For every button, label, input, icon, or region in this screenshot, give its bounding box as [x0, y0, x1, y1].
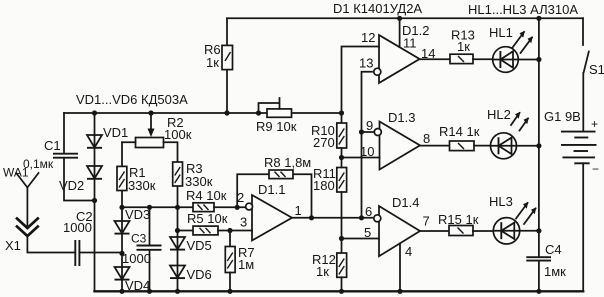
battery G1	[544, 109, 599, 291]
wire detector bus y113 left part	[64, 112, 267, 114]
node divider top on bus	[339, 110, 344, 115]
svg-text:11: 11	[403, 36, 417, 51]
svg-text:1м: 1м	[238, 257, 254, 272]
svg-text:1: 1	[295, 203, 302, 218]
resistor R8 feedback	[237, 155, 311, 218]
svg-text:WA1: WA1	[3, 166, 29, 180]
capacitor C1	[23, 113, 95, 201]
node R6 bottom	[224, 110, 229, 115]
svg-text:HL3: HL3	[489, 194, 513, 209]
node VD5 top R5 tap	[175, 228, 180, 233]
diode VD5	[170, 237, 212, 253]
op-amp D1.4	[365, 195, 430, 259]
node R7 bottom on ground bus	[227, 289, 232, 294]
diode VD3	[115, 207, 151, 234]
wire pin9 stub	[362, 131, 373, 133]
wire D1.2 pin11 supply	[399, 18, 401, 47]
label header HL	[468, 2, 578, 17]
svg-text:13: 13	[359, 56, 373, 71]
svg-text:HL1...HL3 АЛ310А: HL1...HL3 АЛ310А	[468, 2, 578, 17]
resistor R5	[178, 211, 253, 235]
potentiometer R2	[122, 113, 192, 162]
node R1 bottom on y207 bus	[119, 205, 124, 210]
svg-text:X1: X1	[5, 238, 21, 253]
wire top +V rail	[227, 17, 583, 19]
resistor R9 (trimmer)	[256, 98, 297, 134]
svg-text:HL1: HL1	[489, 25, 513, 40]
wire y207 node bus	[122, 206, 193, 208]
svg-text:1мк: 1мк	[544, 264, 566, 279]
svg-text:HL2: HL2	[487, 107, 511, 122]
resistor R14	[420, 124, 491, 151]
svg-text:D1 К1401УД2А: D1 К1401УД2А	[333, 1, 422, 16]
op-amp D1.3	[366, 110, 430, 170]
node C4 bottom on ground bus	[536, 289, 541, 294]
svg-text:1000: 1000	[63, 220, 92, 235]
label header D1	[333, 1, 422, 16]
node VD6 bottom on ground bus	[175, 289, 180, 294]
svg-text:8: 8	[423, 131, 430, 146]
svg-text:R8 1,8м: R8 1,8м	[264, 155, 311, 170]
node pin5 tap	[339, 236, 344, 241]
node R4 R8 pin2 junction	[235, 205, 240, 210]
svg-text:−: −	[592, 162, 599, 176]
svg-text:R4 10к: R4 10к	[186, 188, 227, 203]
svg-text:1к: 1к	[206, 55, 219, 70]
svg-text:1000: 1000	[122, 251, 151, 266]
node R12 bottom on ground bus	[339, 289, 344, 294]
svg-text:VD6: VD6	[187, 267, 212, 282]
resistor R3	[173, 161, 213, 189]
svg-text:C4: C4	[545, 242, 562, 257]
diode VD4	[115, 267, 151, 293]
resistor R10	[311, 123, 347, 168]
diode VD1	[87, 125, 128, 148]
svg-text:R14 1к: R14 1к	[439, 124, 480, 139]
wire pin10	[342, 144, 380, 159]
svg-text:100к: 100к	[164, 127, 192, 142]
wire HL3 to column	[520, 230, 539, 232]
node HL2 column	[536, 143, 541, 148]
node HL3 column	[536, 228, 541, 233]
svg-text:1к: 1к	[316, 264, 329, 279]
switch S1	[583, 18, 604, 131]
node output to comparator column	[359, 215, 364, 220]
node top rail to HL column	[536, 16, 541, 21]
resistor R13	[420, 28, 494, 64]
capacitor C2	[63, 209, 122, 266]
node R3 bottom on y207 bus	[175, 205, 180, 210]
node pin10 tap	[339, 155, 344, 160]
connector X1	[5, 219, 74, 254]
resistor R6	[204, 18, 233, 113]
svg-text:6: 6	[365, 204, 372, 219]
wire D1.4 pin4 to ground	[399, 243, 401, 291]
capacitor C3	[122, 207, 162, 291]
wire R3 VD5 VD6 chain	[177, 162, 179, 291]
svg-text:D1.1: D1.1	[258, 182, 285, 197]
resistor R4	[186, 188, 245, 212]
wire R1 VD3 VD4 chain	[121, 142, 123, 291]
node pin4 on ground bus	[397, 289, 402, 294]
wire detector bus y113 right part	[292, 112, 342, 114]
svg-text:2: 2	[237, 190, 244, 205]
svg-text:D1.4: D1.4	[392, 195, 419, 210]
svg-text:10: 10	[360, 144, 374, 159]
svg-text:330к: 330к	[185, 174, 213, 189]
wire HL column vertical	[538, 18, 540, 256]
svg-text:VD1...VD6 КД503А: VD1...VD6 КД503А	[76, 92, 188, 107]
wire HL2 to column	[516, 145, 539, 147]
node C1 to VD2 bottom	[92, 198, 97, 203]
LED HL3	[489, 194, 536, 244]
node R9 wiper tap	[256, 110, 261, 115]
svg-text:R15 1к: R15 1к	[438, 212, 479, 227]
wire VD1 VD2 chain	[94, 113, 96, 291]
label header diodes	[76, 92, 188, 107]
svg-text:9: 9	[366, 118, 373, 133]
svg-text:VD5: VD5	[187, 238, 212, 253]
svg-text:180: 180	[313, 178, 335, 193]
svg-text:R9 10к: R9 10к	[256, 119, 297, 134]
diode VD2	[59, 166, 102, 193]
svg-text:VD4: VD4	[125, 278, 150, 293]
wire bottom ground bus	[95, 290, 584, 292]
node C3 top	[147, 205, 152, 210]
node pin9 tap	[359, 129, 364, 134]
node VD4 bottom on ground bus	[119, 289, 124, 294]
svg-text:7: 7	[423, 214, 430, 229]
svg-text:1к: 1к	[457, 39, 470, 54]
svg-text:C1: C1	[44, 138, 61, 153]
antenna WA1	[3, 166, 39, 229]
svg-text:330к: 330к	[128, 178, 156, 193]
wire HL1 to column	[518, 59, 539, 61]
svg-text:VD2: VD2	[59, 178, 84, 193]
svg-text:12: 12	[361, 30, 375, 45]
resistor R1	[117, 165, 156, 193]
svg-text:C3: C3	[131, 232, 147, 246]
node C3 bottom on ground bus	[147, 289, 152, 294]
node top rail to D1.2 pin11	[397, 16, 402, 21]
svg-text:270: 270	[313, 135, 335, 150]
wire comparator input column	[362, 72, 373, 218]
op-amp D1.1	[237, 182, 302, 241]
op-amp D1.2	[359, 23, 435, 83]
node R7 top on pin3 wire	[227, 228, 232, 233]
node VD1 top on bus	[92, 110, 97, 115]
resistor R15	[420, 212, 494, 236]
node R8 right to output	[309, 215, 314, 220]
svg-text:3: 3	[240, 215, 247, 230]
svg-text:D1.3: D1.3	[388, 110, 415, 125]
wire pin5	[342, 225, 380, 240]
LED HL2	[487, 107, 529, 159]
wire D1.1 output	[292, 217, 372, 219]
resistor R12	[312, 252, 347, 291]
resistor R7	[225, 231, 254, 292]
svg-text:4: 4	[405, 244, 412, 259]
svg-text:+: +	[591, 117, 598, 131]
node R2 wiper on bus	[148, 110, 153, 115]
svg-text:VD3: VD3	[125, 207, 150, 222]
svg-text:VD1: VD1	[103, 125, 128, 140]
resistor R11	[313, 166, 347, 253]
svg-text:5: 5	[364, 225, 371, 240]
capacitor C4	[526, 242, 566, 291]
node HL1 column	[536, 57, 541, 62]
svg-text:S1: S1	[589, 62, 604, 77]
diode VD6	[170, 266, 212, 283]
wire divider column pin12	[342, 30, 380, 123]
LED HL1	[489, 25, 533, 72]
svg-text:G1 9В: G1 9В	[544, 109, 581, 124]
node VD3 VD4 junction to C2	[119, 251, 124, 256]
svg-text:R5 10к: R5 10к	[187, 211, 228, 226]
